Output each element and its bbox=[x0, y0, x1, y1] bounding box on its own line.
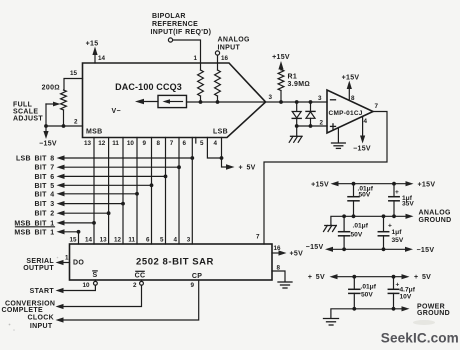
ground (SAR pin 8) bbox=[278, 281, 292, 283]
arrowhead +15 up bbox=[92, 47, 97, 56]
resistor R1 bbox=[278, 70, 284, 91]
internal resistor under pin 1 bbox=[200, 63, 202, 70]
svg-text:3: 3 bbox=[187, 236, 191, 243]
svg-text:+15V: +15V bbox=[418, 181, 436, 188]
wire BIT 4 row bbox=[64, 193, 138, 195]
R1 +15V arrow bbox=[278, 61, 283, 70]
wire pin 16 (analog input) bbox=[217, 55, 219, 63]
capacitor C1 .01uF 50V bbox=[353, 184, 355, 197]
svg-text:−15V: −15V bbox=[353, 146, 371, 153]
wire bit bus vertical pin13/SAR14 bbox=[93, 138, 95, 245]
wire DAC internal output line to comparator bbox=[187, 101, 328, 103]
svg-text:BIT 4: BIT 4 bbox=[34, 191, 54, 198]
svg-text:14: 14 bbox=[85, 236, 93, 243]
svg-text:BIT 7: BIT 7 bbox=[34, 165, 54, 172]
DAC bottom pin tick 5/4 cell bbox=[195, 138, 197, 144]
wire serial output with arrow bbox=[63, 262, 70, 264]
wire power ground rail bbox=[331, 309, 402, 318]
svg-text:OUTPUT: OUTPUT bbox=[23, 265, 54, 272]
svg-text:35V: 35V bbox=[402, 201, 414, 208]
svg-text:1: 1 bbox=[65, 255, 69, 262]
chassis ground under D1 bbox=[296, 126, 298, 136]
svg-text:R1: R1 bbox=[288, 74, 298, 81]
capacitor C2 1uF 35V bbox=[393, 184, 395, 197]
svg-text:2: 2 bbox=[133, 282, 137, 289]
wire LSB BIT 8 row bbox=[64, 157, 193, 159]
wire comparator output feedback to SAR pin 7 bbox=[264, 112, 387, 245]
junction dot diode D2 top bbox=[309, 100, 313, 104]
junction dot R1 bottom bbox=[279, 100, 283, 104]
svg-text:.01μf: .01μf bbox=[353, 222, 369, 229]
wire BIT 2 row bbox=[64, 212, 109, 214]
svg-text:+5V: +5V bbox=[290, 251, 304, 258]
svg-text:7: 7 bbox=[375, 103, 379, 110]
wire +15V rail bbox=[338, 183, 406, 185]
junction dots power ground rail bbox=[352, 307, 356, 311]
svg-text:GROUND: GROUND bbox=[419, 217, 452, 224]
wire SAR pin 8 to ground bbox=[272, 271, 285, 282]
wire DAC pin 5 stub bbox=[207, 138, 221, 159]
junction dots -15V rail bbox=[342, 247, 346, 251]
op-amp U2 comparator CMP-01CJ bbox=[327, 90, 373, 133]
junction dot D1 bottom bbox=[295, 124, 299, 128]
junction dots analog ground rail bbox=[342, 214, 346, 218]
diode D1 (anode up) bbox=[296, 102, 298, 112]
junction dot wiper join bbox=[44, 124, 48, 128]
svg-text:11: 11 bbox=[112, 140, 119, 147]
svg-text:MSB: MSB bbox=[86, 129, 103, 136]
svg-text:5: 5 bbox=[160, 236, 164, 243]
svg-text:BIT 3: BIT 3 bbox=[34, 201, 54, 208]
svg-text:BIT 6: BIT 6 bbox=[34, 174, 54, 181]
wire bit bus vertical pin11/SAR12 bbox=[122, 138, 124, 245]
svg-text:15: 15 bbox=[69, 236, 77, 243]
wire BIT 7 row bbox=[64, 166, 180, 168]
wire pot bottom to pin 2 bbox=[63, 110, 65, 126]
junction dot pin4/5 bbox=[220, 156, 224, 160]
chassis ground (analog ground rail) bbox=[325, 225, 337, 227]
svg-text:LSB BIT 8: LSB BIT 8 bbox=[16, 156, 55, 163]
wire pin 15 stub bbox=[64, 79, 83, 91]
svg-text:+15V: +15V bbox=[272, 54, 290, 61]
svg-text:SeekIC.com: SeekIC.com bbox=[381, 331, 459, 346]
svg-text:BIT 5: BIT 5 bbox=[34, 183, 54, 190]
wire -15V rail bbox=[333, 248, 406, 250]
wire bit bus vertical pin9/SAR6 bbox=[151, 138, 153, 245]
wire pin 14 (+15 supply) bbox=[94, 54, 96, 63]
svg-text:9: 9 bbox=[190, 282, 194, 289]
svg-text:COMPLETE: COMPLETE bbox=[2, 307, 43, 314]
svg-text:V−: V− bbox=[112, 108, 121, 115]
terminal circle pin 2 bbox=[141, 280, 143, 281]
diode D2 (anode down) bbox=[310, 102, 312, 111]
svg-text:CC: CC bbox=[135, 273, 146, 280]
svg-text:SERIAL: SERIAL bbox=[26, 258, 54, 265]
svg-text:S: S bbox=[93, 272, 98, 279]
junction dot D2 bottom bbox=[309, 124, 313, 128]
wire V- lead with arrow bbox=[143, 101, 158, 103]
scan specks bottom left bbox=[9, 324, 11, 326]
svg-text:+15V: +15V bbox=[311, 181, 329, 188]
wire diode bottom line to comparator + input bbox=[297, 125, 327, 127]
potentiometer 200 ohm bbox=[61, 90, 67, 110]
wire MSB BIT 1 complement row bbox=[64, 231, 79, 233]
svg-text:10: 10 bbox=[82, 282, 90, 289]
SAR U3 outline (2502 8-BIT SAR) bbox=[70, 244, 273, 280]
svg-text:−15V: −15V bbox=[39, 141, 57, 148]
svg-text:1μf: 1μf bbox=[392, 229, 403, 236]
svg-text:50V: 50V bbox=[351, 231, 363, 238]
wire pin 1 (bipolar ref) bbox=[173, 40, 201, 63]
wire START bbox=[64, 285, 96, 290]
svg-text:START: START bbox=[30, 288, 55, 295]
svg-text:+15: +15 bbox=[86, 41, 99, 48]
svg-text:10V: 10V bbox=[400, 293, 412, 300]
wire bit bus vertical SAR15 (MSB complement) bbox=[78, 232, 80, 244]
svg-text:2: 2 bbox=[320, 120, 324, 127]
wire analog ground rail bbox=[331, 216, 406, 225]
svg-text:ADJUST: ADJUST bbox=[13, 116, 43, 123]
svg-text:INPUT(IF REQ'D): INPUT(IF REQ'D) bbox=[151, 29, 212, 36]
wire bit bus vertical pin7/SAR4 bbox=[178, 138, 180, 245]
arrow to -15V bbox=[45, 126, 47, 132]
wire BIT 6 row bbox=[64, 175, 166, 177]
svg-text:6: 6 bbox=[183, 140, 187, 147]
svg-text:35V: 35V bbox=[392, 237, 404, 244]
wire to +5V arrow bbox=[222, 158, 227, 167]
DAC U1 outline (DAC-100 CCQ3 pentagon) bbox=[83, 63, 266, 138]
terminal circle pin 10 bbox=[94, 280, 96, 281]
plus input symbol bbox=[331, 125, 336, 127]
svg-text:MSB BIT 1: MSB BIT 1 bbox=[14, 229, 54, 236]
minus input symbol bbox=[331, 99, 336, 101]
terminal analog input bbox=[215, 51, 219, 55]
svg-text:CP: CP bbox=[192, 273, 202, 280]
scan smudge above watermark bbox=[413, 320, 435, 325]
svg-text:4: 4 bbox=[173, 236, 177, 243]
junction dot C2 top bbox=[392, 182, 396, 186]
junction dot pot bottom bbox=[62, 124, 66, 128]
svg-text:BIT 2: BIT 2 bbox=[34, 211, 54, 218]
svg-text:LSB: LSB bbox=[213, 129, 228, 136]
svg-text:FULL: FULL bbox=[13, 102, 33, 109]
junction dot C1 top bbox=[352, 182, 356, 186]
svg-text:3: 3 bbox=[318, 95, 322, 102]
wire +5V rail bbox=[337, 276, 402, 278]
wire wiper down bbox=[45, 104, 47, 126]
svg-text:DO: DO bbox=[73, 260, 84, 267]
junction dot diode D1 top bbox=[295, 100, 299, 104]
svg-text:5: 5 bbox=[200, 140, 204, 147]
svg-text:REFERENCE: REFERENCE bbox=[152, 21, 198, 28]
terminal bipolar reference input bbox=[168, 38, 172, 42]
wire BIT 5 row bbox=[64, 184, 152, 186]
wire BIT 3 row bbox=[64, 203, 124, 205]
svg-text:13: 13 bbox=[100, 236, 108, 243]
svg-text:+ 5V: + 5V bbox=[239, 165, 256, 172]
internal resistor under pin 16 bbox=[217, 63, 219, 70]
svg-text:ANALOG: ANALOG bbox=[218, 37, 250, 44]
wire SAR pin 16 to +5V bbox=[272, 252, 279, 254]
svg-text:3.9MΩ: 3.9MΩ bbox=[288, 81, 311, 88]
svg-text:11: 11 bbox=[128, 236, 135, 243]
svg-text:2502 8-BIT SAR: 2502 8-BIT SAR bbox=[136, 257, 214, 268]
svg-text:15: 15 bbox=[70, 70, 78, 77]
wire bit bus vertical pin12/SAR13 bbox=[108, 138, 110, 245]
ground (power section) bbox=[324, 318, 339, 320]
svg-text:+ 5V: + 5V bbox=[414, 274, 431, 281]
svg-text:+: + bbox=[395, 189, 399, 196]
current source arrow box bbox=[158, 95, 187, 107]
svg-text:13: 13 bbox=[84, 140, 92, 147]
svg-text:GROUND: GROUND bbox=[417, 310, 450, 317]
svg-text:−15V: −15V bbox=[417, 247, 435, 254]
capacitor C6 4.7uF 10V bbox=[393, 277, 395, 289]
svg-text:CMP-01CJ: CMP-01CJ bbox=[329, 110, 363, 117]
svg-text:16: 16 bbox=[274, 245, 282, 252]
junction dot C6 top bbox=[392, 275, 396, 279]
capacitor C3 .01uF 50V bbox=[343, 216, 345, 231]
svg-text:INPUT: INPUT bbox=[218, 45, 241, 52]
svg-text:2: 2 bbox=[74, 119, 78, 126]
svg-text:+ 5V: + 5V bbox=[308, 274, 325, 281]
svg-text:12: 12 bbox=[114, 236, 122, 243]
junction dot C5 top bbox=[352, 275, 356, 279]
pot wiper arrow bbox=[46, 103, 54, 105]
wire bit bus vertical pin6/SAR3 bbox=[191, 138, 193, 245]
svg-text:8: 8 bbox=[351, 95, 355, 102]
svg-text:8: 8 bbox=[277, 265, 281, 272]
svg-text:INPUT: INPUT bbox=[30, 323, 53, 330]
svg-text:12: 12 bbox=[98, 140, 106, 147]
svg-text:4: 4 bbox=[214, 140, 218, 147]
svg-text:ANALOG: ANALOG bbox=[419, 210, 451, 217]
pin 4 supply arrow -15V bbox=[362, 116, 364, 136]
svg-text:8: 8 bbox=[157, 140, 161, 147]
svg-text:50V: 50V bbox=[361, 292, 373, 299]
svg-text:50V: 50V bbox=[359, 192, 371, 199]
svg-text:DAC-100 CCQ3: DAC-100 CCQ3 bbox=[115, 82, 182, 92]
capacitor C5 .01uF 50V bbox=[353, 277, 355, 289]
svg-text:1: 1 bbox=[194, 55, 198, 62]
wire CONVERSION COMPLETE bbox=[64, 285, 142, 306]
svg-text:CLOCK: CLOCK bbox=[28, 315, 55, 322]
svg-text:10: 10 bbox=[127, 140, 135, 147]
junction dot resistor 1 bbox=[199, 100, 203, 104]
svg-text:SCALE: SCALE bbox=[13, 109, 38, 116]
svg-text:16: 16 bbox=[221, 55, 229, 62]
svg-text:6: 6 bbox=[146, 236, 150, 243]
svg-text:BIPOLAR: BIPOLAR bbox=[152, 13, 186, 20]
svg-text:9: 9 bbox=[143, 140, 147, 147]
svg-text:+15V: +15V bbox=[342, 75, 360, 82]
svg-text:7: 7 bbox=[256, 234, 260, 241]
wire bit bus vertical pin10/SAR11 bbox=[136, 138, 138, 245]
svg-text:200Ω: 200Ω bbox=[42, 85, 60, 92]
svg-text:4: 4 bbox=[364, 118, 368, 125]
wire DAC pin 4 stub bbox=[221, 138, 223, 159]
svg-text:14: 14 bbox=[98, 55, 106, 62]
svg-text:.01μf: .01μf bbox=[361, 283, 377, 290]
capacitor C4 1uF 35V bbox=[383, 216, 385, 231]
wire MSB BIT 1 row bbox=[64, 222, 95, 224]
svg-text:3: 3 bbox=[269, 94, 273, 101]
wire bit bus vertical pin8/SAR5 bbox=[165, 138, 167, 245]
pin 8 supply arrow +15V bbox=[348, 89, 350, 101]
svg-text:−15V: −15V bbox=[306, 244, 324, 251]
svg-text:7: 7 bbox=[170, 140, 174, 147]
junction dot resistor 16 bbox=[216, 100, 220, 104]
wire CLOCK INPUT bbox=[64, 280, 199, 320]
comparator ground pin bbox=[337, 128, 339, 143]
